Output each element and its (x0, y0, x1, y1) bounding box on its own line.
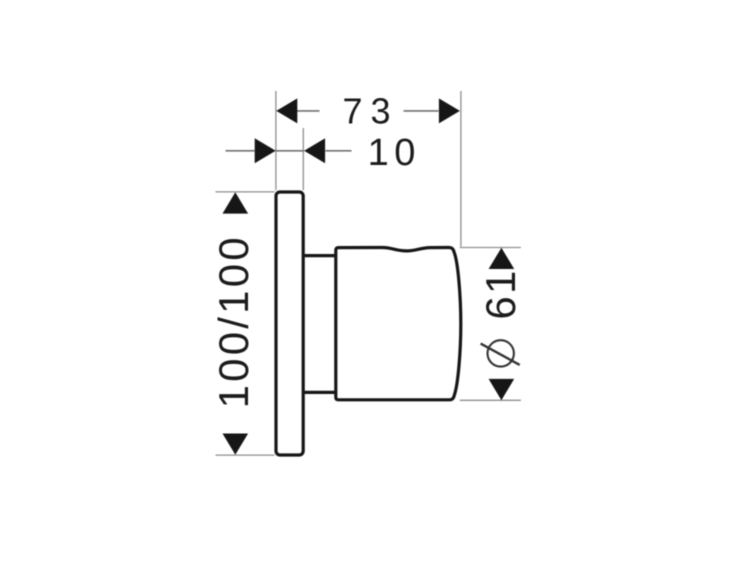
extension line: knob top (y=247.5) for dim 61 (460, 247, 521, 249)
arrowhead dim 73 left (points left at x=276) (276, 98, 297, 123)
svg-text:100/100: 100/100 (210, 234, 257, 408)
extension line: knob right extreme (x=461) for dim 73 (460, 91, 462, 247)
dimension line 10 right tail (326, 150, 352, 152)
handle knob outline (336, 248, 461, 400)
dimension line 73 left segment (297, 110, 320, 112)
stem bottom line (303, 391, 336, 394)
extension line: plate top (y=192) for dim 100/100 (216, 191, 275, 193)
diameter symbol slash (481, 344, 520, 365)
arrowhead dim 100/100 down (points down at y=455) (223, 434, 249, 455)
svg-text:10: 10 (368, 132, 421, 174)
extension line: plate right edge (x=303) for dim 10 (302, 128, 304, 190)
dimension line 10 left tail (226, 150, 255, 152)
arrowhead dim 100/100 up (points up at y=192) (223, 192, 249, 213)
arrowhead dim 61 down (points down at y=400) (489, 379, 515, 400)
stem top line (303, 254, 336, 257)
dimension line 73 right segment (404, 110, 439, 112)
extension line: plate bottom (y=455) for dim 100/100 (216, 454, 275, 456)
arrowhead dim 73 right (points right at x=461) (439, 98, 460, 123)
extension line: plate left edge (x=276) for dims 73 and 10 (275, 91, 277, 190)
wall plate (escutcheon) side view (276, 192, 303, 455)
dimension line 10 middle segment between extension lines (276, 150, 304, 152)
extension line: knob bottom (y=400) for dim 61 (460, 399, 521, 401)
arrowhead dim 10 left (points right at x=276, outside) (255, 138, 276, 163)
diameter symbol circle (488, 340, 514, 366)
svg-text:73: 73 (342, 90, 398, 131)
arrowhead dim 61 up (points up at y=247.5) (489, 248, 515, 269)
arrowhead dim 10 right (points left at x=304, outside) (304, 138, 325, 163)
svg-text:61: 61 (477, 268, 524, 319)
